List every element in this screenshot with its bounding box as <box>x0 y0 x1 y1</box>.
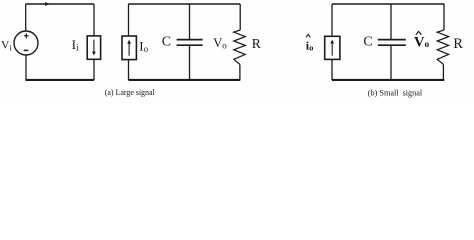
svg-text:Vo: Vo <box>213 36 227 51</box>
svg-text:Vo: Vo <box>414 35 429 51</box>
wire: capacitor C top lead <box>189 4 191 39</box>
wire: resistor R bottom lead <box>239 64 241 80</box>
wire: resistor R top lead <box>239 4 241 30</box>
wire: resistor R (small) top lead <box>443 4 445 30</box>
svg-text:io: io <box>306 39 314 53</box>
wire: circuit (b-large) bottom rail <box>129 79 241 81</box>
svg-text:C: C <box>162 34 171 49</box>
wire: circuit (b-large) left branch lower segment <box>128 60 130 81</box>
wire: capacitor C (small) top lead <box>390 4 392 39</box>
wire: circuit (b-large) top rail <box>129 3 241 5</box>
wire: circuit (a) left branch lower segment <box>25 55 27 80</box>
wire: capacitor C bottom lead <box>189 46 191 80</box>
wire: circuit (a) right branch upper segment <box>93 4 95 36</box>
capacitor C plates <box>177 40 203 46</box>
label v_o hat (small-signal output voltage) <box>414 31 429 50</box>
wire: circuit (b-small) top rail <box>332 3 444 5</box>
wire: capacitor C (small) bottom lead <box>390 46 392 80</box>
wire: circuit (b-small) left branch lower segment <box>331 59 333 80</box>
svg-text:(a) Large signal: (a) Large signal <box>105 88 156 97</box>
label i_o hat (small-signal) <box>306 34 314 52</box>
svg-text:Vi: Vi <box>1 40 12 53</box>
svg-text:Io: Io <box>139 39 148 54</box>
current source i_o: box with upward arrow <box>325 36 340 59</box>
wire: circuit (a) left branch upper segment <box>25 4 27 31</box>
svg-text:R: R <box>252 36 262 51</box>
svg-text:Ii: Ii <box>72 38 79 53</box>
resistor R (small) zigzag <box>437 30 448 64</box>
svg-text:C: C <box>363 35 372 50</box>
wire: resistor R (small) bottom lead <box>442 64 444 80</box>
resistor R zigzag <box>234 30 245 64</box>
capacitor C (small) plates <box>378 40 406 46</box>
wire: circuit (a) top rail <box>26 3 95 5</box>
wire: circuit (a) bottom rail <box>26 79 95 81</box>
wire: circuit (b-small) bottom rail <box>332 79 444 81</box>
voltage source V_i (circle with + and -) <box>14 31 38 55</box>
wire: circuit (a) right branch lower segment <box>93 59 95 80</box>
wire: circuit (b-large) left branch upper segment <box>128 4 130 36</box>
svg-text:(b) Small signal: (b) Small signal <box>368 88 423 97</box>
arrowhead: current direction on top rail of circuit (a) <box>45 2 50 6</box>
svg-text:R: R <box>453 36 463 52</box>
current source I_o: box with upward arrow <box>122 36 136 60</box>
wire: circuit (b-small) left branch upper segment <box>331 4 333 36</box>
current probe I_i: box with downward arrow <box>87 36 100 59</box>
